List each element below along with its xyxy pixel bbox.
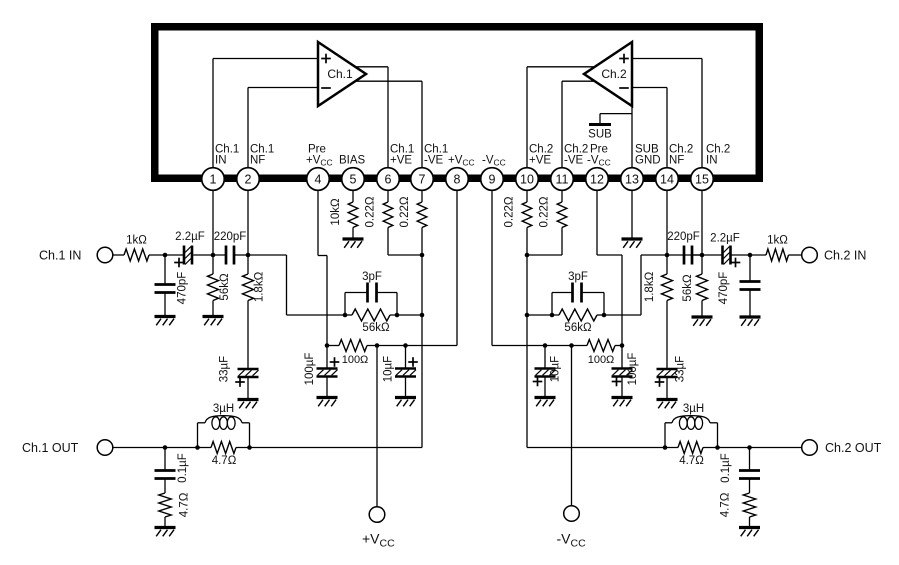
svg-text:0.22Ω: 0.22Ω [504,196,516,227]
resistor 100&#937; (Pre +Vcc) [339,340,368,367]
svg-text:2: 2 [245,173,252,187]
node Ch.2 output junction [525,253,530,258]
wire 33uF right to ground [666,377,668,400]
node Ch.2 fb right [602,313,607,318]
wire pin 11 to output node [527,254,562,256]
svg-text:2.2µF: 2.2µF [710,233,740,245]
svg-text:NF: NF [250,155,265,167]
wire pin 4 Pre +Vcc [318,190,327,345]
wire pin 14 to NF node [667,190,684,255]
capacitor 470pF (Ch.2 input) [718,255,761,317]
ground (BIAS) [343,239,364,248]
svg-text:NF: NF [669,155,684,167]
svg-text:3µH: 3µH [683,403,704,415]
terminal Ch.1 IN [39,247,113,263]
inductor 3&#181;H (Ch.2) [665,403,718,448]
capacitor 100&#181;F (Pre +Vcc) [304,346,339,398]
svg-text:+VE: +VE [390,155,412,167]
svg-text:56kΩ: 56kΩ [362,322,390,334]
wire op2 +input from pin 15 [632,59,702,169]
ground (Ch.1 56k) [203,317,224,326]
node Ch.1 input RC [163,253,168,258]
svg-text:-VE: -VE [424,155,444,167]
svg-text:56kΩ: 56kΩ [564,322,592,334]
resistor 4.7&#937; (Ch.1 Zobel) [159,479,191,528]
wire op2 -input from pin 14 [632,88,667,169]
resistor 4.7&#937; (Ch.2 Zobel) [720,479,756,528]
svg-text:9: 9 [489,173,496,187]
terminal Ch.2 IN [802,247,867,263]
ground (Ch.2 470pF) [740,317,761,326]
node +Vcc rail left [325,343,330,348]
node Ch.2 coil left [663,445,668,450]
ground (100uF right) [612,398,633,407]
resistor 4.7&#937; (Ch.2 output) [678,442,704,468]
svg-text:4.7Ω: 4.7Ω [179,492,191,517]
node pin 15 / Ch.2 IN [700,253,705,258]
resistor 0.22&#937; (Ch.2 -VE) [539,196,567,255]
wire op1 output to pin 7 [354,81,422,168]
svg-text:6: 6 [385,173,392,187]
wire -Vcc terminal riser [571,346,573,506]
svg-text:4: 4 [315,173,322,187]
wire pin 9 -Vcc [491,190,493,345]
wire op1 -input from pin 2 [248,88,318,169]
svg-text:3pF: 3pF [568,271,588,283]
svg-text:1kΩ: 1kΩ [126,235,147,247]
resistor 100&#937; (Pre -Vcc) [587,340,615,367]
svg-text:14: 14 [660,173,674,187]
terminal +Vcc [362,507,395,550]
svg-text:220pF: 220pF [667,231,700,243]
svg-text:10kΩ: 10kΩ [330,198,342,226]
svg-text:Ch.2 OUT: Ch.2 OUT [825,441,882,455]
resistor 56k&#937; (Ch.2 feedback) [527,309,604,334]
svg-text:10µF: 10µF [383,356,395,382]
svg-text:2.2µF: 2.2µF [175,231,205,243]
capacitor 2.2&#181;F (Ch.1 coupling) [174,231,205,267]
capacitor 2.2&#181;F (Ch.2 coupling) [710,233,740,268]
substrate SUB symbol [588,125,612,141]
wire pin 5 BIAS [352,190,354,202]
wire pin 2 to NF node [247,190,249,255]
pin name labels [215,144,730,168]
svg-text:Ch.2: Ch.2 [601,67,627,81]
svg-text:33µF: 33µF [219,356,231,382]
terminal Ch.1 OUT [22,440,113,456]
node Ch.2 input RC [748,253,753,258]
op-amp Ch.2 [584,42,632,106]
inductor 3&#181;H (Ch.1) [198,403,250,448]
ground (Ch.1 Zobel) [155,528,176,537]
svg-text:0.22Ω: 0.22Ω [539,196,551,227]
svg-text:470pF: 470pF [177,272,189,305]
svg-text:8: 8 [454,173,461,187]
svg-text:BIAS: BIAS [339,155,366,167]
IC package outline (power amp) [155,27,760,179]
svg-text:33µF: 33µF [675,356,687,382]
wire pin 7 [421,190,423,202]
node Ch.2 coil right [715,445,720,450]
capacitor 0.1&#181;F (Ch.1 Zobel) [155,448,190,483]
wire +Vcc terminal riser [376,346,378,507]
ground (Ch.1 33uF) [238,400,259,409]
node -Vcc 10uF [543,343,548,348]
wire pin 10 [526,190,528,202]
wire Ch.1 output row [113,447,422,449]
resistor 1.8k&#937; (Ch.2 NF) [644,255,673,369]
svg-text:IN: IN [706,155,718,167]
node -Vcc rail right [620,343,625,348]
ground (10uF left) [395,398,416,407]
node Ch.1 coil right [247,445,252,450]
capacitor 10&#181;F (+Vcc) [383,346,418,398]
ground (Ch.2 56k) [692,317,713,326]
capacitor 0.1&#181;F (Ch.2 Zobel) [720,448,760,483]
capacitor 100&#181;F (Pre -Vcc) [612,346,640,398]
svg-text:470pF: 470pF [718,272,730,305]
wire pin 11 [561,190,563,202]
svg-text:100µF: 100µF [304,353,316,386]
svg-text:3pF: 3pF [362,271,382,283]
node +Vcc riser [375,343,380,348]
svg-text:0.1µF: 0.1µF [720,453,732,483]
svg-text:7: 7 [419,173,426,187]
resistor 0.22&#937; (Ch.1 +VE) [365,196,393,255]
svg-text:1.8kΩ: 1.8kΩ [644,271,656,302]
svg-text:0.1µF: 0.1µF [177,453,189,483]
svg-text:3µH: 3µH [213,403,234,415]
wire SUB net to pin 13 [600,106,632,168]
node Ch.1 fb output [420,313,425,318]
node Ch.1 fb right [395,313,400,318]
svg-text:5: 5 [350,173,357,187]
wire pin 6 [387,190,389,202]
wire pin 15 to input node [702,190,723,255]
svg-text:100Ω: 100Ω [342,354,369,366]
svg-text:4.7Ω: 4.7Ω [212,455,237,467]
node Ch.1 output junction [420,253,425,258]
ground (10uF right) [535,398,556,407]
ground (Ch.2 33uF) [657,400,678,409]
svg-text:Ch.1: Ch.1 [327,67,353,81]
capacitor 33&#181;F (Ch.1 NF) [219,356,259,387]
wire pin 13 SUB GND [631,190,633,239]
capacitor 10&#181;F (-Vcc) [533,346,562,398]
wire op1 output to pin 6 [354,67,388,168]
capacitor 3pF (Ch.1 feedback) [345,271,397,315]
resistor 56k&#937; (Ch.1 input bias) [208,255,232,317]
capacitor 33&#181;F (Ch.2 NF) [655,356,687,387]
wire pin 1 to input node [212,190,214,255]
svg-text:4.7Ω: 4.7Ω [720,492,732,517]
op-amp Ch.1 [318,42,366,106]
wire pin 6 to output node [388,254,422,256]
svg-text:Ch.1 OUT: Ch.1 OUT [22,441,79,455]
svg-text:0.22Ω: 0.22Ω [365,196,377,227]
resistor 1.8k&#937; (Ch.1 NF) [243,255,266,369]
svg-text:GND: GND [635,155,661,167]
node Ch.2 fb left [550,313,555,318]
resistor 1k&#937; (Ch.2 input) [732,235,802,262]
svg-text:10: 10 [520,173,534,187]
wire +Vcc rail [327,345,457,347]
svg-text:10µF: 10µF [550,356,562,382]
ground (Ch.1 470pF) [155,317,176,326]
resistor 0.22&#937; (Ch.2 +VE) [504,196,532,447]
node -Vcc riser [569,343,574,348]
wire op1 +input from pin 1 [213,59,318,169]
svg-text:1.8kΩ: 1.8kΩ [254,271,266,302]
node Ch.1 zobel [163,445,168,450]
svg-text:Ch.2 IN: Ch.2 IN [824,249,866,263]
wire pin 12 Pre -Vcc [597,190,622,345]
capacitor 470pF (Ch.1 input) [155,255,189,317]
node Ch.2 zobel [747,445,752,450]
ground (100uF left) [317,398,338,407]
resistor 0.22&#937; (Ch.1 -VE) [399,196,427,447]
svg-text:15: 15 [695,173,709,187]
ground (Ch.2 Zobel) [739,528,760,537]
resistor 1k&#937; (Ch.1 input) [113,235,185,262]
wire -Vcc rail [492,345,622,347]
wire Ch.2 output row [527,447,802,449]
node pin 14 / Ch.2 NF [665,253,670,258]
svg-text:0.22Ω: 0.22Ω [399,196,411,227]
wire pin 8 +Vcc [456,190,458,345]
terminal -Vcc [557,506,587,550]
wire Ch.1 NF feedback [248,255,345,315]
node Ch.1 fb left [343,313,348,318]
resistor 56k&#937; (Ch.1 feedback) [345,309,422,334]
capacitor 220pF (Ch.2 NF) [667,231,702,265]
node Ch.2 fb output [525,313,530,318]
svg-text:12: 12 [590,173,604,187]
wire op2 output to pin 10 [527,67,596,168]
IC pin circles 1-15 [202,168,714,191]
wire 33uF to ground [247,377,249,400]
resistor 56k&#937; (Ch.2 input bias) [682,255,708,317]
resistor 4.7&#937; (Ch.1 output) [211,442,237,468]
wire Ch.2 NF feedback [604,255,667,315]
svg-text:1kΩ: 1kΩ [767,235,788,247]
svg-text:100µF: 100µF [627,353,639,386]
svg-text:1: 1 [210,173,217,187]
svg-text:56kΩ: 56kΩ [219,273,231,301]
svg-text:Ch.1 IN: Ch.1 IN [39,249,81,263]
svg-text:-VE: -VE [564,155,584,167]
svg-text:56kΩ: 56kΩ [682,274,694,302]
wire op2 output to pin 11 [562,81,596,168]
ground (SUB GND) [622,239,643,248]
svg-text:100Ω: 100Ω [588,354,615,366]
capacitor 3pF (Ch.2 feedback) [552,271,604,315]
svg-text:220pF: 220pF [214,231,247,243]
svg-text:SUB: SUB [588,129,612,141]
node Ch.1 coil left [195,445,200,450]
svg-text:IN: IN [215,155,227,167]
capacitor 220pF (Ch.1 NF) [193,231,248,265]
node pin 1 / Ch.1 IN [211,253,216,258]
terminal Ch.2 OUT [802,440,882,456]
svg-text:+VE: +VE [529,155,551,167]
resistor 10k&#937; (BIAS) [330,198,358,239]
svg-text:11: 11 [556,173,569,187]
svg-text:4.7Ω: 4.7Ω [679,455,704,467]
node +Vcc 10uF [403,343,408,348]
svg-text:13: 13 [625,173,639,187]
node pin 2 / Ch.1 NF [246,253,251,258]
